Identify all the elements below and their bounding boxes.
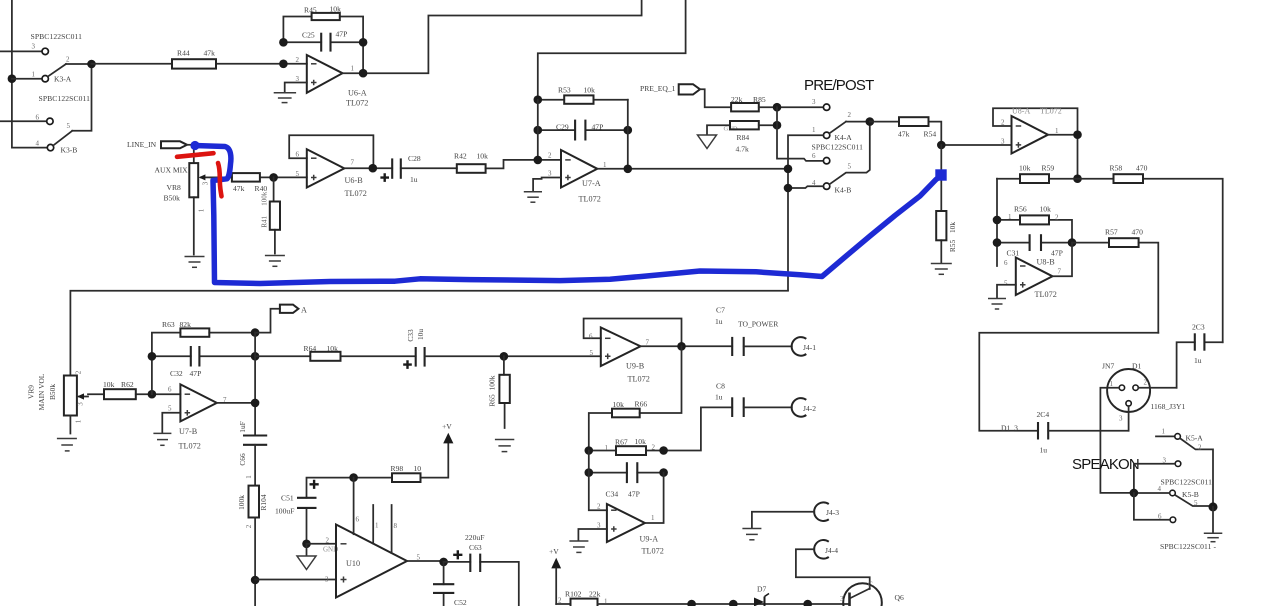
svg-text:C33: C33 [406,329,415,342]
capacitor C8 [664,382,792,451]
wire input bus left vertical [8,0,48,148]
svg-text:K4-A: K4-A [835,133,853,142]
capacitor C32 [148,346,260,378]
svg-text:4: 4 [36,140,40,148]
ground R84 (triangle) [698,135,717,149]
capacitor C25 [279,30,367,74]
svg-text:C7: C7 [716,306,725,315]
wire from top edge to R53 node [538,0,686,100]
svg-text:PRE_EQ_1: PRE_EQ_1 [640,84,676,93]
op-amp U6-B [296,149,367,198]
connector JN7 D1 (XLR 1168_J3Y1) [1102,362,1185,423]
capacitor C63 [444,533,519,606]
svg-text:5: 5 [848,163,852,171]
power +V (R98) [442,422,453,443]
svg-text:B50k: B50k [164,194,181,203]
svg-text:4.7k: 4.7k [736,145,749,154]
svg-text:R56: R56 [1014,205,1027,214]
svg-text:1: 1 [375,522,379,530]
svg-text:5: 5 [1004,280,1008,288]
svg-text:1uF: 1uF [238,421,247,433]
svg-text:R64: R64 [304,344,317,353]
wire main feedback bus y290 [70,291,788,376]
svg-text:1: 1 [32,71,36,79]
junction U6-A pin2 [279,60,288,69]
wire J4-4 to Q6 collector [796,549,870,589]
svg-text:R98: R98 [391,464,404,473]
svg-text:R53: R53 [558,86,571,95]
svg-text:2: 2 [245,524,253,528]
svg-text:1: 1 [1110,380,1114,388]
svg-text:1: 1 [1055,127,1059,135]
svg-text:3: 3 [202,181,210,185]
svg-text:1: 1 [351,65,355,73]
svg-text:C66: C66 [238,453,247,466]
svg-text:1: 1 [75,419,83,423]
marker blue line [190,141,946,284]
resistor R66 [589,346,682,450]
svg-text:K3-A: K3-A [54,75,72,84]
svg-text:K3-B: K3-B [61,146,78,155]
svg-text:TL072: TL072 [628,375,650,384]
wire K3 pin6 stub [0,120,46,122]
svg-text:TL072: TL072 [346,99,368,108]
svg-text:2: 2 [75,370,83,374]
ground VR9 [57,439,77,451]
ground R41 [265,256,285,267]
svg-text:10k: 10k [635,437,647,446]
wire U8-B output up [1053,243,1073,277]
svg-text:1: 1 [1162,428,1166,436]
wire U10 pin2 [307,543,337,545]
svg-text:1: 1 [812,126,816,134]
resistor R58 [1078,164,1223,343]
svg-text:10k: 10k [1019,164,1031,173]
svg-text:SPBC122SC011: SPBC122SC011 [31,32,83,41]
wire K3 pin3 stub [0,50,42,52]
svg-text:C25: C25 [302,31,315,40]
svg-text:10u: 10u [416,329,425,340]
svg-text:6: 6 [356,516,360,524]
svg-text:4: 4 [1158,485,1162,493]
svg-text:3: 3 [812,98,816,106]
resistor R42 [454,152,561,173]
ground U6-A pin3 [274,83,307,103]
svg-text:8: 8 [394,522,398,530]
capacitor C66 [238,421,267,485]
svg-text:+V: +V [442,422,452,431]
ground U9-A pin3 [569,529,607,552]
svg-text:2: 2 [1055,214,1059,222]
wire U6-B feedback [289,135,373,168]
op-amp U9-A [589,451,664,556]
svg-text:VR9: VR9 [27,385,36,399]
svg-text:47P: 47P [336,30,348,39]
svg-text:+V: +V [549,547,559,556]
svg-text:U6-A: U6-A [348,89,367,98]
capacitor C33 [403,329,601,369]
svg-text:R66: R66 [635,400,648,409]
switch K4-A [812,111,870,152]
svg-text:C63: C63 [469,543,482,552]
capacitor C7 [715,306,792,357]
svg-text:R85: R85 [753,95,766,104]
svg-text:J4-4: J4-4 [825,546,838,555]
svg-text:10: 10 [414,464,422,473]
svg-text:R62: R62 [121,380,134,389]
svg-text:6: 6 [1004,259,1008,267]
svg-text:LINE_IN: LINE_IN [127,140,157,149]
svg-text:B50k: B50k [48,384,57,400]
svg-text:R42: R42 [454,152,467,161]
wire U6-A output to top [343,0,642,77]
svg-text:D1: D1 [1132,362,1141,371]
ground R55 [931,264,952,275]
resistor R56 [993,205,1072,243]
svg-text:C28: C28 [408,154,421,163]
svg-text:220uF: 220uF [465,533,484,542]
ground U10 pin2 (triangle) [297,544,338,570]
svg-text:SPBC122SC011 -: SPBC122SC011 - [1160,542,1217,551]
svg-text:3: 3 [77,402,85,406]
capacitor C51 [275,478,354,548]
resistor R64 [255,344,416,361]
wire U10 pin1 pin8 stubs [373,505,397,553]
svg-text:2: 2 [1001,119,1005,127]
svg-text:SPEAKON: SPEAKON [1072,456,1139,473]
svg-text:R54: R54 [924,130,937,139]
svg-text:10k: 10k [477,152,489,161]
svg-text:R44: R44 [177,49,190,58]
svg-text:3: 3 [1163,457,1167,465]
svg-text:R57: R57 [1105,228,1118,237]
svg-text:MAIN VOL: MAIN VOL [37,373,46,410]
svg-text:R59: R59 [1042,164,1055,173]
svg-text:100k: 100k [488,375,497,390]
wire U9-B feedback [584,319,682,347]
svg-text:7: 7 [351,159,355,167]
svg-text:R58: R58 [1110,164,1123,173]
wire R59 left down to U8-B [996,179,998,266]
resistor R55 [936,145,957,263]
resistor R62 [88,380,180,399]
resistor R41 [260,177,280,253]
svg-text:5: 5 [67,122,71,130]
transistor Q6 [840,581,906,606]
svg-text:C34: C34 [606,490,619,499]
svg-text:D1_3: D1_3 [1001,424,1018,433]
op-amp U8-B [1004,258,1062,300]
svg-text:JN7: JN7 [1102,362,1114,371]
svg-text:C8: C8 [716,382,725,391]
svg-text:100k: 100k [260,191,268,206]
capacitor 2C4 [1001,410,1129,455]
svg-text:1u: 1u [1194,356,1202,365]
wire K3 common node [66,60,96,131]
resistor R98 [349,443,448,482]
svg-text:2C4: 2C4 [1037,410,1050,419]
svg-text:1u: 1u [715,317,723,326]
svg-text:47k: 47k [233,184,245,193]
svg-text:J4-1: J4-1 [803,343,816,352]
wire U7-A output [597,165,788,174]
wire K4 pin1/pin4 to U7-A output node [784,135,824,290]
svg-text:10k: 10k [330,5,342,14]
flag A [255,305,307,333]
op-amp U9-B [589,328,650,384]
resistor R54 [870,117,942,145]
power +V (Q6) [549,547,561,604]
svg-text:1u: 1u [715,393,723,402]
op-amp U7-B [168,384,227,450]
diode D7 [754,585,769,606]
svg-text:J4-2: J4-2 [803,404,816,413]
switch K4-B [812,117,874,194]
svg-text:TL072: TL072 [1035,290,1057,299]
wire K3 pin1 stub [12,78,42,80]
svg-text:R104: R104 [259,494,268,510]
svg-text:2: 2 [1198,444,1202,452]
svg-text:100k: 100k [237,495,246,510]
svg-text:1168_J3Y1: 1168_J3Y1 [1151,402,1186,411]
resistor R44 [92,49,307,69]
op-amp U10 [325,525,421,598]
svg-text:7: 7 [1058,268,1062,276]
resistor R53 [534,86,628,104]
svg-text:3: 3 [32,43,36,51]
svg-text:SPBC122SC011: SPBC122SC011 [1161,478,1213,487]
svg-text:VR8: VR8 [167,183,182,192]
svg-text:3: 3 [840,595,844,603]
ground U7-A pin3 [524,178,561,203]
connector J4-1 [792,337,817,356]
svg-text:10k: 10k [1040,205,1052,214]
switch K5-A [1134,428,1213,507]
wire XLR pin3 stub [1128,406,1130,431]
ground U8-B pin5 [988,285,1016,309]
svg-text:6: 6 [296,151,300,159]
svg-text:TL072: TL072 [579,195,601,204]
capacitor C28 [344,154,457,184]
svg-text:R84: R84 [737,133,750,142]
resistor R85 [731,95,830,111]
svg-text:10k: 10k [327,344,339,353]
svg-text:6: 6 [1158,513,1162,521]
svg-text:R41: R41 [260,215,268,227]
svg-text:10k: 10k [584,86,596,95]
svg-text:47P: 47P [628,490,640,499]
svg-text:R63: R63 [162,320,175,329]
svg-text:10k: 10k [613,400,625,409]
svg-text:C: C [868,581,873,589]
wire XLR pin1 to K5 [1100,388,1134,493]
svg-text:2: 2 [558,597,562,605]
flag PRE_EQ_1 [640,84,731,107]
svg-text:47P: 47P [1051,249,1063,258]
ground J4-3 [742,512,814,540]
svg-text:1: 1 [198,208,206,212]
switch K3-B [36,94,91,155]
svg-text:R55: R55 [948,240,957,253]
svg-text:U6-B: U6-B [345,176,364,185]
svg-text:U8-B: U8-B [1037,258,1056,267]
svg-text:82k: 82k [180,320,192,329]
svg-text:A: A [301,306,307,315]
svg-text:TL072: TL072 [642,547,664,556]
svg-text:SPBC122SC011: SPBC122SC011 [39,94,91,103]
resistor R59 [997,164,1078,184]
svg-text:47P: 47P [190,369,202,378]
svg-text:R102: R102 [565,590,582,599]
svg-text:1: 1 [603,161,607,169]
svg-text:SPBC122SC011: SPBC122SC011 [812,143,864,152]
svg-text:6: 6 [36,114,40,122]
svg-text:5: 5 [1194,499,1198,507]
resistor R67 [585,437,668,455]
svg-text:2: 2 [66,56,70,64]
svg-text:6: 6 [589,333,593,341]
svg-text:R67: R67 [615,438,628,447]
ground K5 [1204,507,1223,542]
svg-text:2C3: 2C3 [1192,323,1205,332]
svg-text:2: 2 [548,152,552,160]
svg-text:TO_POWER: TO_POWER [738,320,779,329]
resistor R102 [556,590,849,606]
ground U7-B pin5 [153,413,180,446]
svg-text:1u: 1u [410,175,418,184]
ground R65 [495,440,514,452]
wire R104 to U10 pin3 [255,579,336,581]
svg-text:Q6: Q6 [895,593,904,602]
wire U10 output [407,558,448,567]
resistor R63 [152,320,260,394]
op-amp U7-A [548,150,607,204]
resistor R57 [1072,228,1158,333]
svg-text:R45: R45 [304,6,317,15]
svg-text:R40: R40 [255,184,268,193]
svg-text:J4-3: J4-3 [826,508,839,517]
svg-text:C29: C29 [556,123,569,132]
svg-text:3: 3 [1001,138,1005,146]
svg-text:1: 1 [1008,213,1012,221]
svg-text:47k: 47k [204,49,216,58]
resistor R65 [488,356,510,428]
connector J4-4 [814,540,838,559]
svg-text:TL072: TL072 [345,189,367,198]
capacitor C29 [534,120,633,141]
svg-text:1: 1 [245,475,253,479]
svg-text:10k: 10k [948,222,957,233]
resistor R104 [237,486,268,606]
svg-text:D7: D7 [757,585,766,594]
svg-text:1u: 1u [1040,446,1048,455]
svg-text:5: 5 [296,170,300,178]
svg-text:2: 2 [848,111,852,119]
svg-text:AUX MIX: AUX MIX [155,166,189,175]
wire R85/R84 node to K4 pin6 [777,107,823,161]
resistor R45 [283,5,363,43]
wire U10 pin6 stub [354,478,360,535]
svg-text:3: 3 [1119,415,1123,423]
connector J4-2 [792,398,817,417]
svg-text:2: 2 [652,444,656,452]
svg-text:C32: C32 [170,369,183,378]
svg-text:C31: C31 [1007,249,1020,258]
ground VR8 [185,257,205,268]
junction bottom wire dots [687,600,812,606]
svg-text:TL072: TL072 [179,442,201,451]
svg-text:6: 6 [168,386,172,394]
op-amp U8-A [993,107,1078,154]
svg-text:5: 5 [590,349,594,357]
marker red strokes [177,153,222,196]
connector J4-3 [814,502,839,521]
svg-text:U9-A: U9-A [640,535,659,544]
svg-text:470: 470 [1132,228,1144,237]
resistor R40 [211,173,307,193]
capacitor C34 [585,462,668,498]
svg-text:K5-B: K5-B [1182,490,1199,499]
svg-text:470: 470 [1136,164,1148,173]
flag LINE_IN [127,140,194,149]
svg-text:10k: 10k [103,380,115,389]
svg-text:6: 6 [812,152,816,160]
svg-text:C52: C52 [454,598,467,606]
potentiometer VR9 [27,370,89,433]
wire R57 to 2C4 row [979,333,1158,431]
resistor R84 [707,121,781,154]
svg-text:C51: C51 [281,494,294,503]
svg-text:1: 1 [604,598,608,606]
svg-text:K4-B: K4-B [835,186,852,195]
capacitor 2C3 [1177,323,1223,388]
svg-text:2: 2 [326,537,330,545]
svg-text:5: 5 [168,405,172,413]
potentiometer VR8 [155,145,211,255]
svg-text:22k: 22k [589,590,601,599]
svg-text:2: 2 [1144,379,1148,387]
wire U9-A output up [645,473,664,523]
wire U8-A output down [1048,130,1082,183]
svg-text:3: 3 [548,170,552,178]
wire XLR pin2 to 2C3 [1138,387,1176,389]
switch K3-A [31,32,83,84]
svg-text:47P: 47P [592,123,604,132]
svg-text:22k: 22k [731,95,743,104]
svg-text:U7-B: U7-B [179,427,198,436]
svg-text:U7-A: U7-A [582,179,601,188]
wire U7-B output node [217,333,260,436]
svg-text:100uF: 100uF [275,507,294,516]
svg-text:U10: U10 [346,559,360,568]
svg-text:3: 3 [325,576,329,584]
switch K5-B [1130,485,1218,551]
svg-text:TL072: TL072 [1040,107,1062,116]
wire U9-B output node [641,342,733,351]
capacitor C31 [993,234,1077,257]
svg-text:U8-A: U8-A [1012,107,1030,116]
svg-text:R65: R65 [488,394,497,407]
wire R54 node to U8-A pin3 [937,141,1012,150]
capacitor C52 [433,562,467,606]
svg-text:7: 7 [646,339,650,347]
op-amp U6-A [296,55,369,108]
svg-text:PRE/POST: PRE/POST [804,77,874,94]
svg-text:47k: 47k [898,130,910,139]
svg-text:2: 2 [597,503,601,511]
wire U7-A feedback verticals [538,100,628,169]
svg-text:1: 1 [605,444,609,452]
